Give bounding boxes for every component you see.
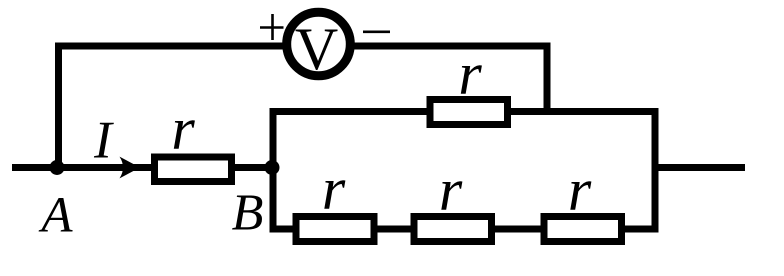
svg-text:r: r: [568, 157, 592, 223]
svg-text:V: V: [295, 16, 338, 82]
svg-text:A: A: [38, 188, 73, 244]
svg-text:B: B: [232, 185, 264, 242]
svg-text:I: I: [93, 112, 114, 170]
svg-text:r: r: [171, 96, 195, 162]
svg-text:r: r: [458, 41, 482, 107]
svg-text:r: r: [322, 156, 346, 222]
svg-text:r: r: [439, 157, 463, 223]
